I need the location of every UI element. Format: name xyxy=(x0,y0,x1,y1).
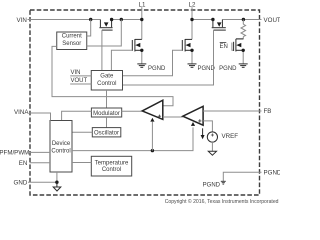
block oscillator xyxy=(92,128,121,137)
pin wire PFM/PWM xyxy=(30,151,51,153)
svg-text:PGND: PGND xyxy=(219,66,237,72)
svg-text:EN: EN xyxy=(19,160,28,167)
arrowhead into A1 bottom xyxy=(150,118,154,122)
wire soft start to A1 xyxy=(151,122,153,151)
svg-text:Device: Device xyxy=(52,141,71,147)
junction dot Q3 source xyxy=(190,49,193,52)
wire current sensor lower tap xyxy=(87,20,122,47)
wire node L1 rail xyxy=(112,19,142,21)
svg-text:Current: Current xyxy=(62,34,82,40)
wire VIN rail xyxy=(28,19,101,21)
wire gate control to modulator xyxy=(106,90,108,108)
arrowhead into A2 bottom xyxy=(191,122,195,126)
transistor Q5 output discharge FET xyxy=(234,39,244,52)
transistor Q4 boost rectifier FET (rotated) xyxy=(212,20,226,31)
wire Q2 gate to gate control xyxy=(111,50,132,70)
wire A2 output into A1 xyxy=(163,116,183,118)
junction dot Q4 left stub xyxy=(211,18,214,21)
pin wire L2 xyxy=(191,7,193,39)
svg-text:PGND: PGND xyxy=(264,169,281,176)
svg-text:Gate: Gate xyxy=(100,74,114,80)
wire VREF to ground xyxy=(211,142,213,151)
wire VOUT rail xyxy=(222,19,261,21)
transistor Q3 boost low-side FET xyxy=(182,39,192,52)
svg-text:PGND: PGND xyxy=(203,183,221,189)
svg-text:Control: Control xyxy=(97,81,116,87)
block gate control xyxy=(91,71,122,91)
op-amp A1 error amplifier xyxy=(142,100,163,119)
svg-text:Oscillator: Oscillator xyxy=(94,131,119,137)
wire VREF to A2 xyxy=(203,121,212,132)
wire current sensor output to comparator xyxy=(52,46,173,105)
pin wire EN xyxy=(30,162,51,164)
block modulator xyxy=(91,108,121,117)
wire device control to modulator xyxy=(62,111,92,120)
svg-text:VOUT: VOUT xyxy=(71,78,88,84)
junction dot VOUT node xyxy=(242,18,245,21)
wire Q3 gate to gate control xyxy=(123,50,183,75)
transistor Q2 buck low-side FET xyxy=(132,39,142,52)
wire modulator to error amp output xyxy=(122,110,142,112)
wire Q2 source to ground xyxy=(141,50,143,63)
wire device control to GND xyxy=(56,172,58,182)
transistor Q1 high-side buck FET (rotated) xyxy=(99,20,112,31)
svg-text:EN: EN xyxy=(220,44,228,50)
svg-text:PGND: PGND xyxy=(148,66,166,72)
wire device control soft start xyxy=(72,127,193,150)
junction dot Q2 source xyxy=(140,49,143,52)
wire oscillator to device control xyxy=(72,131,92,133)
ground GND arrow xyxy=(53,182,61,191)
svg-text:PFM/PWM: PFM/PWM xyxy=(0,150,29,157)
wire EN to Q5 gate xyxy=(232,43,234,51)
wire Q4 gate to gate control xyxy=(123,30,214,85)
svg-text:Copyright © 2016, Texas Instru: Copyright © 2016, Texas Instruments Inco… xyxy=(165,198,279,205)
svg-text:VINA: VINA xyxy=(14,109,29,116)
svg-text:GND: GND xyxy=(14,180,28,187)
ground PGND 1 xyxy=(137,64,146,67)
arrow VREF current direction xyxy=(202,128,204,135)
svg-text:FB: FB xyxy=(264,108,272,115)
svg-text:Sensor: Sensor xyxy=(62,41,81,47)
svg-text:Control: Control xyxy=(102,167,121,173)
ground PGND small xyxy=(221,181,226,184)
wire Q5 source to ground xyxy=(242,50,244,63)
wire current sensor upper tap xyxy=(87,20,91,37)
ground VREF arrow xyxy=(208,151,216,155)
svg-text:VIN: VIN xyxy=(16,17,26,24)
ground PGND 3 xyxy=(239,64,248,67)
junction dot VIN-current sensor xyxy=(89,18,92,21)
pin wire PGND right xyxy=(223,172,261,181)
junction dot current sensor tap xyxy=(120,18,123,21)
pin wire VINA xyxy=(29,113,51,121)
junction dot Q1 right stub xyxy=(110,18,113,21)
outer dashed device boundary xyxy=(30,10,260,195)
pin wire FB xyxy=(203,110,261,112)
svg-text:Temperature: Temperature xyxy=(95,161,129,167)
wire Q1 gate to gate control xyxy=(101,30,103,70)
junction dot GND xyxy=(55,181,58,184)
junction dot soft start xyxy=(151,149,154,152)
wire VIN sense into gate control xyxy=(70,75,91,77)
op-amp A2 error amplifier xyxy=(183,106,203,125)
ground PGND 2 xyxy=(188,64,197,67)
wire Q3 source to ground xyxy=(191,50,193,63)
svg-text:VOUT: VOUT xyxy=(264,17,281,24)
pin wire GND xyxy=(28,181,57,183)
svg-text:Control: Control xyxy=(51,148,70,154)
block temperature control xyxy=(91,156,131,176)
svg-text:VREF: VREF xyxy=(222,133,239,140)
block current sensor xyxy=(57,32,87,50)
wire device control to temperature control xyxy=(72,162,91,164)
svg-text:VIN: VIN xyxy=(71,70,81,76)
block device control xyxy=(50,121,72,173)
pin wire L1 xyxy=(141,7,143,39)
wire node L2 rail xyxy=(192,19,213,21)
wire VOUT sense into gate control xyxy=(70,83,91,85)
svg-text:Modulator: Modulator xyxy=(93,111,120,117)
current source VREF xyxy=(207,132,217,142)
wire modulator to oscillator xyxy=(106,117,108,128)
junction dot L1 node xyxy=(140,18,143,21)
junction dot Q5 source xyxy=(242,49,245,52)
svg-text:PGND: PGND xyxy=(198,66,216,72)
junction dot L2 node xyxy=(190,18,193,21)
resistor VOUT discharge xyxy=(236,20,246,39)
